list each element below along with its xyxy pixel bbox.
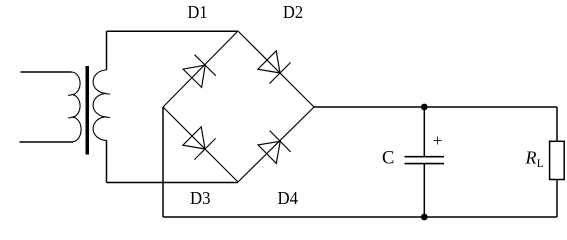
svg-text:D2: D2 (283, 2, 303, 22)
junction node at C top (421, 104, 428, 111)
svg-text:C: C (382, 149, 394, 169)
svg-text:D4: D4 (278, 188, 299, 208)
diode D2 (238, 31, 314, 107)
resistor RL body (550, 141, 565, 179)
resistor RL bottom lead (556, 180, 558, 218)
transformer T1 core (86, 66, 90, 155)
wire secondary top lead (106, 31, 108, 70)
transformer T1 primary winding (72, 72, 82, 142)
svg-text:D3: D3 (190, 188, 211, 208)
wire top positive rail (314, 106, 557, 108)
wire bottom AC to bridge (107, 182, 239, 184)
svg-text:R: R (525, 148, 537, 168)
wire drop to RL (556, 107, 558, 141)
capacitor C top lead (423, 107, 425, 156)
capacitor C bottom plate (405, 163, 445, 165)
diode D1 (163, 31, 238, 107)
transformer T1 secondary winding (93, 70, 106, 140)
wire secondary bottom lead (106, 140, 108, 182)
diode D3 (163, 107, 238, 182)
wire top AC rail (107, 30, 239, 32)
transformer T1 primary bottom lead (20, 141, 74, 143)
svg-text:+: + (433, 131, 443, 150)
capacitor C top plate (405, 156, 445, 158)
diode D4 (238, 107, 314, 182)
wire bottom negative rail (163, 216, 557, 218)
capacitor C bottom lead (423, 164, 425, 217)
primary winding cusp curls (68, 94, 72, 97)
transformer T1 primary top lead (21, 71, 72, 73)
secondary winding cusp curls (106, 92, 110, 95)
svg-text:D1: D1 (188, 2, 208, 22)
wire negative drop from bridge (162, 107, 164, 217)
junction node at C bottom (421, 214, 428, 221)
svg-text:L: L (537, 158, 544, 170)
